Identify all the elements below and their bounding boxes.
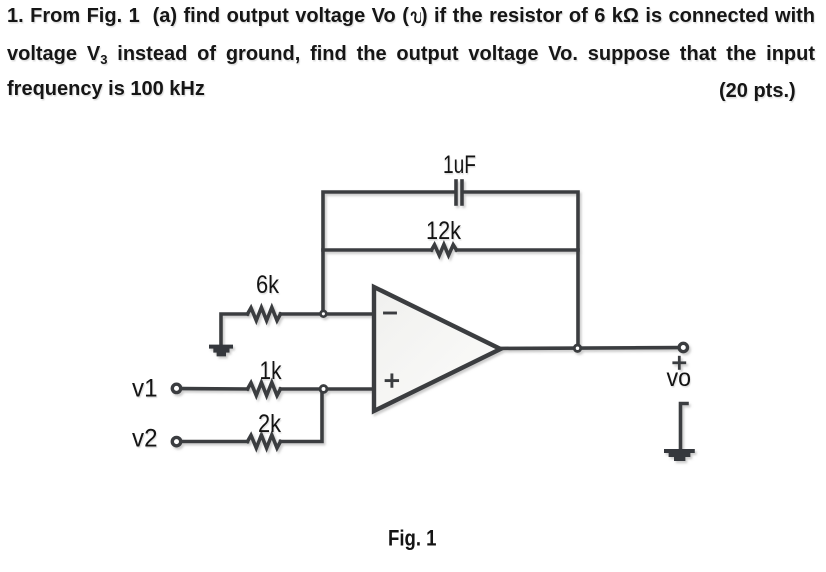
wire: 12k feedback left [323, 248, 432, 252]
op-amp U1 [374, 287, 501, 411]
op-amp plus sign [386, 379, 398, 382]
resistor R3 1k [248, 383, 281, 396]
problem statement line 3 [7, 79, 815, 99]
ground symbol G2 (output) [664, 449, 695, 461]
svg-text:vo: vo [667, 364, 692, 392]
node: non-inverting junction A [320, 386, 327, 393]
problem statement line 1 [7, 6, 815, 26]
resistor R4 2k [248, 435, 281, 448]
wire: top feedback left segment to capacitor [323, 192, 454, 314]
wire: 6k to inverting input [281, 312, 375, 316]
resistor R2 12k [432, 245, 457, 256]
wire: 12k feedback right [457, 248, 579, 252]
terminal v1 [172, 384, 180, 392]
svg-text:2k: 2k [258, 410, 281, 438]
svg-text:v2: v2 [132, 425, 158, 453]
node: inverting junction [321, 311, 327, 317]
svg-text:Fig. 1: Fig. 1 [388, 526, 437, 551]
wire: capacitor to right vertical down to output [464, 192, 578, 348]
points label [719, 81, 819, 101]
plus sign at vo [674, 361, 685, 364]
terminal v2 [172, 437, 180, 445]
svg-text:1uF: 1uF [443, 151, 476, 179]
capacitor C1 1uF plates [454, 181, 458, 204]
svg-text:v1: v1 [132, 374, 158, 402]
wire: vo negative lead to ground [681, 404, 688, 450]
terminal vo [679, 343, 687, 351]
node: output junction [574, 345, 580, 351]
svg-text:6k: 6k [256, 271, 279, 299]
wire: 2k up to junction node [281, 389, 323, 442]
problem statement line 2 [7, 44, 815, 64]
svg-text:1k: 1k [260, 357, 282, 385]
wire: output [501, 346, 680, 350]
wire: v1 to 1k [182, 387, 248, 391]
svg-text:12k: 12k [426, 217, 461, 245]
wire: v2 to 2k [182, 440, 248, 444]
op-amp minus sign [385, 312, 396, 315]
resistor R1 6k [248, 308, 281, 321]
ground symbol G1 (left) [209, 345, 233, 357]
wire: ground to 6k [221, 314, 248, 346]
wire: 1k to non-inverting input [281, 387, 375, 391]
